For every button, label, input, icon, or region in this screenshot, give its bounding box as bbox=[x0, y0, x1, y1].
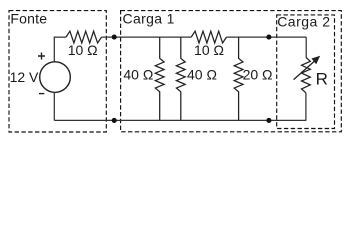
svg-text:R: R bbox=[316, 69, 328, 88]
node dot top-right bbox=[266, 35, 271, 40]
box Carga 2 (dashed) bbox=[277, 15, 335, 129]
box Carga 1 (dashed) bbox=[121, 11, 342, 132]
wire Carga 2 bottom lead bbox=[305, 93, 307, 121]
svg-text:Fonte: Fonte bbox=[10, 10, 47, 26]
minus sign bbox=[39, 93, 44, 95]
resistor 20 ohm bbox=[234, 37, 243, 120]
variable resistor arrow bbox=[294, 61, 315, 80]
svg-text:Carga 1: Carga 1 bbox=[123, 10, 175, 26]
svg-text:10 Ω: 10 Ω bbox=[68, 42, 98, 58]
wire source top stub bbox=[53, 37, 55, 62]
variable resistor R bbox=[302, 57, 311, 92]
svg-text:10 Ω: 10 Ω bbox=[194, 42, 224, 58]
plus sign bbox=[38, 53, 45, 60]
node dot bottom-right bbox=[266, 118, 271, 123]
svg-text:20 Ω: 20 Ω bbox=[243, 67, 273, 83]
wire Carga 2 top lead bbox=[305, 37, 307, 57]
svg-text:40 Ω: 40 Ω bbox=[187, 67, 217, 83]
box Fonte (dashed) bbox=[9, 11, 106, 132]
svg-text:12 V: 12 V bbox=[10, 69, 39, 85]
voltage source V1 (circle) bbox=[40, 62, 71, 93]
wire top rail left bbox=[54, 36, 66, 38]
resistor 40 ohm #1 bbox=[155, 37, 164, 120]
wire top rail middle bbox=[102, 36, 192, 38]
node dot top-left bbox=[112, 35, 117, 40]
node dot bottom-left bbox=[112, 118, 117, 123]
svg-text:40 Ω: 40 Ω bbox=[123, 67, 153, 83]
resistor 40 ohm #2 bbox=[176, 37, 185, 120]
wire top rail right bbox=[227, 36, 307, 38]
resistor 10 ohm (series, Carga 1) bbox=[191, 31, 226, 43]
wire bottom rail bbox=[54, 119, 306, 121]
svg-text:Carga 2: Carga 2 bbox=[277, 14, 330, 30]
resistor 10 ohm (series, Fonte) bbox=[66, 31, 102, 43]
wire source bottom stub bbox=[53, 92, 55, 120]
